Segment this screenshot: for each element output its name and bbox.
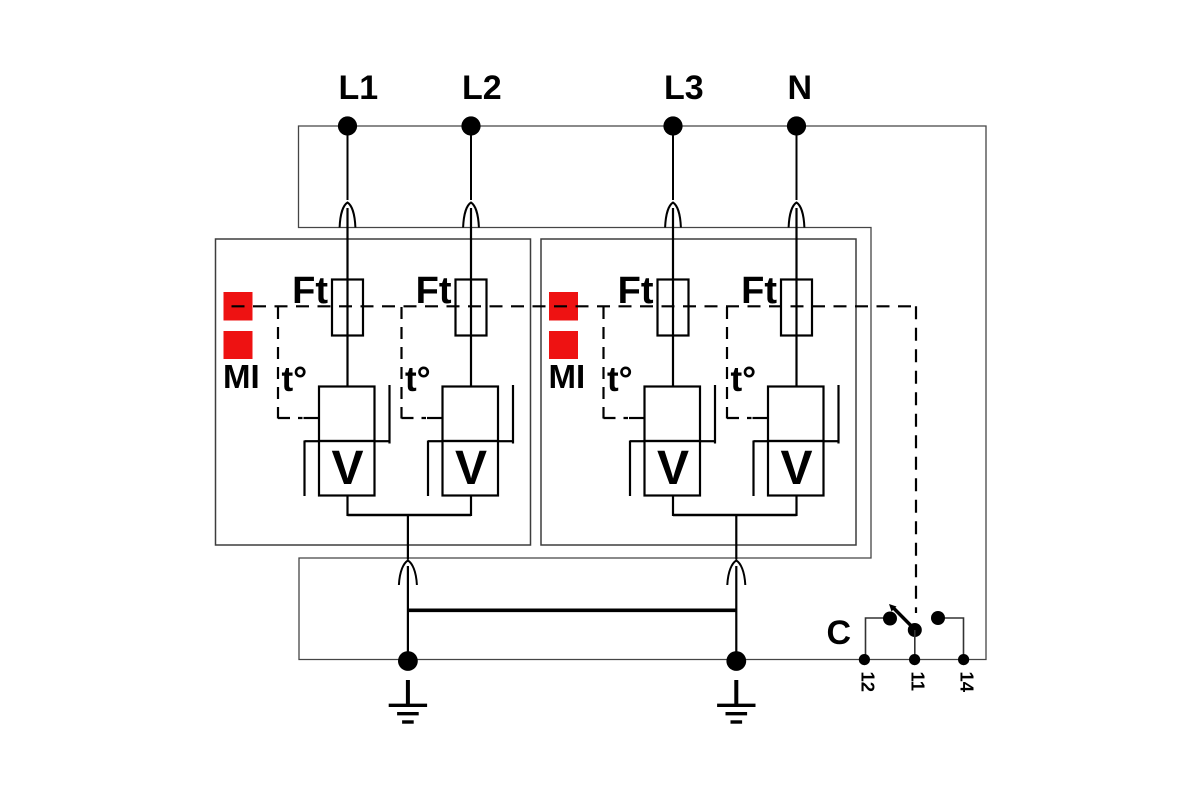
svg-text:L3: L3 <box>664 69 704 107</box>
svg-text:V: V <box>657 442 689 495</box>
svg-text:L1: L1 <box>339 69 379 107</box>
svg-text:t°: t° <box>607 360 633 399</box>
svg-text:14: 14 <box>957 672 978 693</box>
svg-text:N: N <box>788 69 813 107</box>
svg-text:t°: t° <box>731 360 757 399</box>
svg-text:t°: t° <box>282 360 308 399</box>
svg-text:L2: L2 <box>462 69 502 107</box>
svg-text:C: C <box>826 614 851 652</box>
svg-text:t°: t° <box>405 360 431 399</box>
svg-text:12: 12 <box>857 672 878 693</box>
svg-text:MI: MI <box>549 358 586 395</box>
svg-text:MI: MI <box>223 358 260 395</box>
svg-text:V: V <box>455 442 487 495</box>
svg-text:V: V <box>331 442 363 495</box>
svg-text:V: V <box>780 442 812 495</box>
svg-text:11: 11 <box>908 672 929 692</box>
